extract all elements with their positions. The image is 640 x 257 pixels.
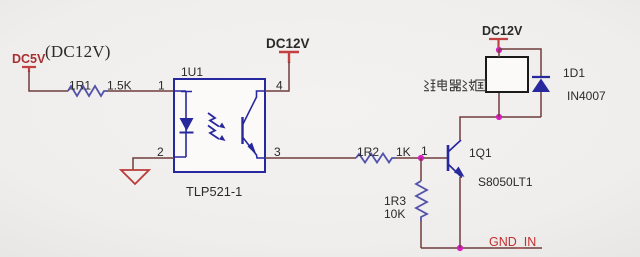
U1 phototransistor	[243, 91, 266, 158]
svg-text:1U1: 1U1	[181, 65, 203, 79]
node junction emitter/bottom rail	[457, 245, 463, 251]
relay coil box	[486, 57, 528, 92]
diode D1	[532, 66, 606, 103]
wire pin3 to R2	[265, 157, 356, 159]
resistor R2	[356, 145, 411, 163]
power symbol DC12V (right)	[482, 24, 523, 49]
label relay coil (Chinese: 继电器线圈) drawn as strokes	[424, 79, 485, 91]
svg-text:S8050LT1: S8050LT1	[478, 175, 533, 189]
svg-text:(DC12V): (DC12V)	[45, 42, 111, 61]
svg-text:1: 1	[421, 144, 428, 158]
U1 LED	[174, 91, 194, 157]
node junction at base/R3	[418, 144, 428, 161]
svg-text:1R2: 1R2	[357, 145, 379, 159]
svg-text:3: 3	[274, 145, 281, 159]
node junction below DC12V	[496, 47, 502, 53]
transistor Q1	[448, 140, 533, 189]
power symbol DC12V (center)	[266, 36, 310, 63]
resistor R1	[68, 79, 132, 97]
svg-text:1D1: 1D1	[563, 66, 585, 80]
wire U1 pin4 to DC12V	[265, 62, 289, 91]
svg-text:1Q1: 1Q1	[469, 146, 492, 160]
bottom rail wire	[421, 247, 542, 249]
svg-text:TLP521-1: TLP521-1	[186, 184, 242, 199]
wire junction down to R3	[420, 158, 422, 181]
wire R2 to Q1 base	[395, 157, 447, 159]
wire diode anode to relay bottom rail	[540, 92, 542, 117]
svg-text:1: 1	[158, 79, 165, 93]
wire R3 to bottom rail	[420, 221, 422, 248]
op-to-coupler U1 box	[174, 65, 265, 172]
wire collector up and across to diode	[460, 117, 541, 140]
net label (DC12V)	[45, 42, 111, 61]
node junction relay bottom	[496, 114, 502, 120]
svg-text:IN4007: IN4007	[567, 89, 606, 103]
wire emitter to bottom rail	[459, 177, 461, 248]
svg-text:DC5V: DC5V	[12, 52, 46, 66]
ground	[121, 170, 149, 184]
svg-text:DC12V: DC12V	[266, 36, 310, 51]
svg-text:GND_IN: GND_IN	[489, 235, 536, 249]
svg-text:10K: 10K	[384, 207, 405, 221]
wire relay bottom	[498, 92, 500, 117]
power symbol DC5V	[12, 52, 46, 72]
wire pin2 to ground	[133, 158, 174, 170]
svg-text:2: 2	[157, 145, 164, 159]
wire R1 to U1 pin1	[107, 90, 173, 92]
U1 photon arrows	[208, 113, 226, 141]
wire from DC5V to R1	[29, 71, 68, 91]
svg-text:1R3: 1R3	[384, 194, 406, 208]
svg-text:DC12V: DC12V	[482, 24, 523, 38]
resistor R3	[384, 181, 427, 221]
wire DC12V to relay top	[498, 49, 500, 57]
svg-text:1R1: 1R1	[69, 79, 91, 93]
wire DC12V across to diode cathode	[499, 49, 541, 76]
svg-text:1K: 1K	[396, 145, 411, 159]
